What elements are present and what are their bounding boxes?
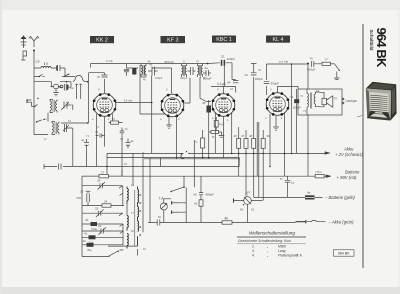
capacitor C8 decoupling [124, 64, 129, 76]
ground U2 cathode [166, 116, 172, 129]
resistor R under U3 [214, 117, 223, 131]
capacitor C23 [208, 55, 236, 80]
svg-text:1 mb: 1 mb [106, 59, 113, 63]
capacitor C3 series antenna cap [56, 65, 65, 77]
wire screen line [127, 67, 172, 69]
transformer TR6 output primary [307, 89, 308, 115]
wire cabinet pointer [357, 116, 362, 118]
svg-text:28: 28 [97, 179, 101, 183]
svg-text:45µ: 45µ [87, 248, 92, 252]
tube label box KL4 [266, 36, 290, 44]
wire coil connections [48, 105, 73, 166]
svg-text:100pF: 100pF [227, 57, 236, 61]
capacitor C45 [245, 73, 264, 81]
part number box [334, 250, 355, 256]
capacitor C76 [307, 57, 322, 72]
switch contact S2b [36, 120, 45, 123]
svg-text:CF: CF [36, 60, 40, 64]
transformer TR1 tuning coils [50, 100, 57, 113]
tube U2 KF3 [161, 94, 185, 118]
svg-text:„: „ [266, 245, 268, 249]
svg-text:13 mb: 13 mb [124, 99, 133, 103]
svg-text:KF 3: KF 3 [167, 38, 178, 44]
switch arrows coil taps [119, 186, 123, 234]
wire +90V row [324, 175, 331, 177]
wire U3 grid feed [200, 77, 211, 102]
transformer TR5 IF3 [198, 64, 203, 78]
svg-text:300pF: 300pF [271, 82, 280, 86]
switch S curved bus [181, 151, 190, 158]
svg-text:„: „ [266, 253, 268, 257]
svg-text:Gezeichnete Schalterstellung:: Gezeichnete Schalterstellung: Kurz [238, 239, 291, 243]
svg-text:964 BK: 964 BK [374, 28, 389, 68]
resistor R24 [82, 200, 124, 208]
svg-text:1µ: 1µ [291, 181, 295, 185]
resistor Rlc vertical [196, 130, 205, 158]
svg-text:Akku: Akku [343, 147, 354, 152]
wire oscillator left bus [82, 176, 108, 256]
svg-text:KL 4: KL 4 [273, 37, 284, 43]
junction dots mid [87, 102, 309, 168]
capacitor C2e [126, 139, 135, 149]
variable capacitor C1c gang2 [61, 102, 71, 111]
wire lamp connections [164, 188, 186, 223]
wire anode U4 to box [278, 87, 299, 93]
svg-text:2.: 2. [251, 245, 255, 249]
earth plug symbol [21, 51, 27, 60]
svg-text:500: 500 [77, 196, 82, 200]
svg-text:964 BK: 964 BK [338, 252, 350, 256]
resistor R77 [322, 58, 335, 66]
svg-text:3.: 3. [252, 249, 255, 253]
inductor L4 osc coil section2 [127, 216, 128, 231]
wire pot drops [247, 204, 249, 222]
wire U4 drops [215, 113, 284, 176]
wire center drops [122, 136, 161, 186]
svg-text:44: 44 [245, 73, 249, 77]
svg-text:4µ: 4µ [81, 138, 85, 142]
capacitor C29 trimmer [82, 224, 123, 235]
capacitor C26 [77, 190, 91, 207]
wire mid bus B [107, 158, 239, 167]
jack contacts TA lower [172, 211, 179, 214]
wire oscillator section verticals [34, 83, 48, 135]
wire HT top bus [91, 63, 208, 65]
output terminals [342, 98, 358, 104]
svg-text:Lautspr.: Lautspr. [346, 99, 358, 103]
svg-text:40: 40 [85, 218, 89, 222]
wire bottom AF bus [148, 158, 296, 223]
fuse F1 [305, 191, 315, 200]
ground under U3 [219, 132, 225, 137]
svg-text:Batterie: Batterie [345, 169, 360, 174]
wire mid bus D [82, 153, 315, 176]
svg-text:180pF: 180pF [255, 77, 263, 81]
svg-text:KK 2: KK 2 [96, 38, 108, 44]
svg-text:kg: kg [220, 122, 224, 126]
svg-text:79: 79 [334, 97, 338, 101]
capacitor C28 trimmer [82, 179, 122, 190]
wire HT to output [307, 64, 309, 89]
svg-text:– Akku (grün): – Akku (grün) [328, 219, 355, 224]
svg-text:KBC 1: KBC 1 [216, 37, 232, 43]
svg-text:24: 24 [104, 200, 108, 204]
transformer TR4 IF2 [182, 64, 187, 77]
svg-text:76: 76 [310, 57, 314, 61]
svg-text:29: 29 [98, 224, 102, 228]
potentiometer P60 [234, 192, 263, 212]
capacitor C2a [203, 66, 212, 81]
resistor R27 [82, 171, 122, 178]
transformer TR3 IF1 [141, 64, 146, 78]
table row3 [252, 249, 286, 253]
svg-text:27: 27 [101, 171, 105, 175]
svg-text:71: 71 [280, 177, 284, 181]
svg-text:150pF: 150pF [155, 76, 163, 80]
wire detector vertical [224, 66, 236, 94]
resistor R49 vertical [261, 130, 270, 201]
svg-text:44: 44 [227, 81, 231, 85]
svg-text:Lang: Lang [278, 249, 286, 253]
ground tone switch [334, 78, 340, 80]
inductor L3 osc coil section1 [127, 187, 128, 204]
svg-text:4.: 4. [252, 253, 255, 257]
capacitor C47a [132, 68, 136, 75]
wire output box bottom [307, 115, 309, 176]
capacitor C40 [82, 218, 123, 231]
resistor R47 vertical [234, 127, 241, 176]
wire grid feed U1 [61, 64, 105, 124]
resistor R48 vertical [249, 118, 256, 197]
jack -Akku [296, 220, 326, 223]
svg-text:500 pF: 500 pF [165, 60, 175, 64]
speaker LS [320, 92, 338, 107]
transformer TR2 band coils [52, 122, 59, 135]
svg-text:+ 90V (rot): + 90V (rot) [337, 175, 358, 180]
table row4 [252, 253, 303, 257]
wire pi hop [66, 76, 89, 82]
label Akku +2V [335, 147, 364, 158]
trimmer capacitor C7d [63, 124, 73, 132]
capacitor C2d [120, 127, 128, 136]
inductor L5 osc coil section3 [127, 234, 128, 249]
resistor R51 [222, 217, 232, 225]
svg-text:46: 46 [202, 101, 206, 105]
svg-text:500pF: 500pF [293, 106, 301, 110]
capacitor C71 output [290, 89, 301, 153]
svg-text:41: 41 [84, 232, 88, 236]
capacitor C41 [82, 232, 124, 245]
capacitor C46b [264, 81, 279, 85]
svg-text:1f: 1f [183, 60, 185, 64]
svg-text:62: 62 [194, 202, 198, 206]
svg-text:73: 73 [112, 117, 116, 121]
resistor R73 [109, 117, 123, 124]
resistor R47 vertical [241, 130, 248, 197]
capacitor C71a [95, 130, 105, 138]
svg-text:46: 46 [234, 134, 238, 138]
svg-text:2a: 2a [205, 66, 209, 70]
label coil ticks [45, 63, 48, 66]
capacitor C44 IF2 [188, 67, 196, 75]
svg-text:ja: ja [211, 135, 215, 139]
wire twin verticals [257, 122, 259, 197]
wire osc verticals [108, 152, 143, 255]
switch S7 [170, 140, 194, 192]
svg-text:37: 37 [97, 75, 101, 79]
svg-text:60: 60 [240, 208, 244, 212]
svg-text:2e: 2e [131, 139, 135, 143]
wire mid bus C [144, 158, 240, 160]
svg-text:26: 26 [80, 190, 84, 194]
switch S5 tone [335, 64, 340, 78]
capacitor C43 IF1 [148, 63, 158, 76]
wire U4 grid feed [267, 64, 309, 95]
wire avc row [211, 86, 236, 88]
tube label box KF3 [161, 36, 186, 44]
variable capacitor C1a gang [59, 82, 74, 91]
switch S6 bottom [108, 250, 124, 257]
capacitor C42 [82, 239, 124, 252]
svg-text:0,1µA: 0,1µA [217, 82, 227, 86]
transformer TR6 secondary [314, 92, 319, 107]
wire detector vertical2 [251, 64, 257, 119]
svg-text:61: 61 [251, 208, 255, 212]
wire +2V row [325, 152, 330, 154]
svg-text:880pF: 880pF [206, 193, 215, 197]
wire input row [34, 77, 75, 88]
tube label box KBC1 [212, 36, 236, 44]
rule thin [237, 243, 306, 245]
lamp P1 [160, 203, 167, 210]
svg-text:7n: 7n [125, 127, 129, 131]
trimmer T1 circle [51, 84, 63, 89]
capacitor C44b detector [227, 81, 239, 85]
svg-text:100p: 100p [91, 227, 98, 231]
tube U3 KBC1 [212, 93, 236, 117]
svg-text:„: „ [266, 249, 268, 253]
jack contacts TA upper [172, 201, 179, 204]
label Batterie +90V [337, 169, 361, 180]
transformer TR6 core [310, 93, 311, 109]
svg-text:Mittel: Mittel [278, 245, 286, 249]
ground U4 cathode [273, 116, 279, 130]
wire mid bus A [107, 152, 325, 154]
wire antenna lead-in [33, 52, 35, 83]
table row2 [251, 245, 286, 249]
svg-text:8a: 8a [307, 191, 311, 195]
wire U2 drops [116, 65, 177, 158]
capacitor C5n [280, 176, 295, 197]
output transformer box [298, 89, 342, 115]
svg-text:600pF: 600pF [307, 68, 316, 72]
svg-text:63: 63 [194, 193, 198, 197]
contact prongs [75, 84, 82, 99]
radio cabinet picture [366, 82, 397, 121]
capacitor C63 [194, 176, 215, 200]
svg-text:+ 2V (schwarz): + 2V (schwarz) [335, 152, 364, 157]
svg-text:T. A.: T. A. [296, 253, 303, 257]
inductor L6 long coil [135, 187, 141, 247]
svg-text:25: 25 [95, 207, 99, 211]
svg-text:42: 42 [83, 239, 87, 243]
capacitor C42a coupling [59, 164, 62, 170]
capacitor C10 grid cap U1 [97, 75, 108, 79]
jack TA input [27, 98, 39, 107]
svg-text:23: 23 [221, 55, 225, 59]
wire U2 grid feed [171, 68, 173, 94]
capacitor C46 dark [202, 100, 211, 158]
svg-text:49: 49 [267, 134, 271, 138]
resistor R ja [209, 131, 222, 139]
tube U4 KL4 [266, 92, 290, 116]
ground trimmer [53, 89, 59, 96]
svg-text:Wellenschalterstellung: Wellenschalterstellung [249, 231, 295, 236]
antenna A1 mast [21, 36, 27, 49]
wire +2Vorh vertical [291, 64, 293, 153]
wire -Batterie row [254, 196, 323, 198]
resistor R90 [315, 170, 324, 178]
wire U2 anode [184, 78, 190, 103]
capacitor C4u electrolytic [81, 138, 89, 167]
frame separator line [362, 24, 364, 268]
svg-text:180pF: 180pF [180, 76, 188, 80]
capacitor C25 trimmer [82, 207, 123, 218]
rule thick [237, 236, 306, 238]
tube U1 KK2 [93, 93, 117, 117]
svg-text:71: 71 [95, 130, 99, 134]
switch contact S1b [64, 74, 69, 77]
wire U1 cathode drops [97, 114, 113, 166]
svg-text:7,5m: 7,5m [315, 170, 322, 174]
svg-text:47: 47 [241, 134, 245, 138]
svg-text:Schaltbild: Schaltbild [369, 30, 374, 51]
svg-text:77: 77 [325, 58, 329, 62]
tube label box KK2 [90, 36, 114, 44]
capacitor C51a [157, 220, 160, 226]
svg-text:1a: 1a [70, 86, 74, 90]
antenna A2 dipole [29, 36, 39, 47]
resistor R62 vertical [194, 200, 203, 223]
inductor L1 antenna coil [34, 66, 56, 68]
svg-text:71: 71 [290, 95, 294, 99]
svg-text:– Batterie (gelb): – Batterie (gelb) [324, 195, 355, 200]
wire bottom left row [44, 164, 239, 169]
svg-text:48: 48 [249, 134, 253, 138]
svg-text:a.1 mb: a.1 mb [279, 60, 289, 64]
switch contact S1a [34, 74, 45, 77]
